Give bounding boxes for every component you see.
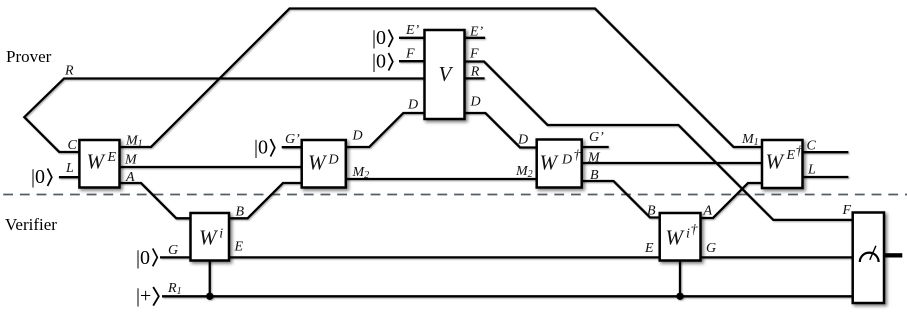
ket |+> R1 [136, 285, 159, 307]
ket |0> F [372, 51, 393, 73]
svg-text:G: G [706, 241, 716, 256]
svg-text:E’: E’ [405, 23, 420, 38]
ket |0> G [136, 247, 157, 269]
svg-text:A: A [703, 204, 713, 219]
ket |0> L [31, 166, 52, 188]
svg-text:|+: |+ [136, 285, 151, 307]
dashed prover/verifier divider [0, 194, 907, 196]
wire D: WD up to V [346, 113, 425, 147]
svg-text:M: M [587, 151, 601, 166]
wire G ket to Wi [160, 256, 191, 258]
wire L: ket to WE [59, 176, 80, 178]
gate WD box [302, 140, 346, 188]
svg-text:B: B [647, 204, 656, 219]
svg-text:G: G [168, 243, 178, 258]
svg-text:†: † [691, 223, 699, 238]
svg-text:E: E [234, 240, 244, 255]
wire A: WE down to Wi [120, 183, 191, 218]
wire B: Wi up to WD [229, 183, 302, 218]
svg-text:V: V [439, 62, 454, 86]
svg-text:E: E [786, 148, 796, 163]
svg-text:F: F [469, 47, 479, 62]
svg-text:†: † [796, 144, 804, 159]
measurement box [853, 213, 884, 304]
wire G' out stub of WDdag [582, 146, 609, 148]
wire M: WDdag to WEdag [582, 162, 762, 164]
svg-text:G’: G’ [589, 130, 604, 145]
svg-text:†: † [574, 148, 582, 163]
svg-text:L: L [65, 161, 74, 176]
svg-text:L: L [807, 163, 816, 178]
gate WEdag box [762, 140, 803, 188]
control dot Widag [676, 293, 683, 300]
svg-text:|0: |0 [136, 247, 150, 269]
svg-text:E: E [644, 241, 654, 256]
wire R: C port of WE up-left to vertex then R into V [24, 79, 424, 153]
ket |0> G' [254, 137, 275, 159]
svg-text:R: R [64, 64, 74, 79]
svg-text:Verifier: Verifier [5, 215, 57, 234]
control wire Widag [679, 261, 681, 297]
svg-text:G’: G’ [285, 132, 300, 147]
wire C out of WEdag [803, 151, 849, 153]
svg-text:D: D [561, 153, 572, 168]
wire A: Widag up to WEdag [701, 183, 763, 218]
wire R1: plus-ket to measurement [162, 295, 853, 297]
gate V box [425, 30, 465, 119]
wire G: Widag to measurement [701, 256, 854, 258]
gate WDdag box [537, 140, 582, 188]
svg-text:A: A [125, 170, 135, 185]
svg-text:|0: |0 [372, 51, 386, 73]
svg-text:M: M [124, 152, 138, 167]
gate Wi box [191, 213, 230, 261]
svg-text:R: R [470, 65, 480, 80]
measurement output thick wire [884, 253, 902, 257]
wire F: V down across to measurement [465, 62, 854, 220]
wire D: V down to WDdag [465, 113, 537, 148]
svg-text:D: D [517, 133, 528, 148]
svg-text:F: F [405, 47, 415, 62]
svg-text:D: D [352, 129, 363, 144]
ket |0> E' [372, 27, 393, 49]
gate Widag box [660, 213, 701, 261]
svg-text:C: C [807, 139, 817, 154]
wire F ket to V [399, 60, 425, 62]
svg-text:|0: |0 [31, 166, 45, 188]
svg-text:E: E [107, 150, 117, 165]
wire M: WE to WD [120, 166, 302, 168]
wire B: WDdag down to Widag [582, 181, 660, 218]
svg-text:W: W [766, 150, 786, 174]
wire M1: WE over the top to WEdag [120, 9, 763, 148]
svg-text:i: i [686, 227, 690, 242]
wire E' ket to V [399, 37, 425, 39]
svg-text:|0: |0 [372, 27, 386, 49]
wire E: Wi to Widag [229, 256, 660, 258]
svg-text:W: W [666, 226, 686, 250]
svg-text:B: B [590, 168, 599, 183]
svg-text:D: D [328, 153, 339, 168]
control dot Wi [206, 293, 213, 300]
wire R out stub [465, 77, 485, 79]
svg-text:i: i [219, 227, 223, 242]
wire E' out stub [465, 37, 486, 39]
svg-text:D: D [470, 95, 481, 110]
wire G': ket to WD [282, 146, 302, 148]
wire L out of WEdag [803, 176, 849, 178]
svg-text:Prover: Prover [6, 47, 52, 66]
svg-text:E’: E’ [469, 25, 484, 40]
svg-text:W: W [540, 151, 560, 175]
svg-text:W: W [87, 150, 107, 174]
svg-text:W: W [199, 226, 219, 250]
control wire Wi [209, 261, 211, 297]
svg-text:F: F [842, 203, 852, 218]
wire M2: WD to WDdag [346, 178, 537, 180]
svg-text:|0: |0 [254, 137, 268, 159]
meter symbol [860, 253, 879, 262]
gate WE box [79, 140, 119, 188]
svg-text:D: D [407, 98, 418, 113]
svg-text:W: W [308, 151, 328, 175]
svg-text:C: C [68, 138, 78, 153]
svg-text:B: B [236, 205, 245, 220]
